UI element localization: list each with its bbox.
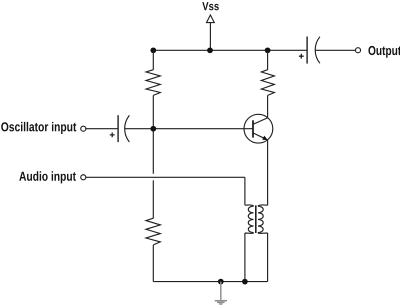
transistor Q1 body <box>244 114 273 143</box>
node ground junction <box>218 279 224 285</box>
wire secondary to bottom rail <box>267 233 269 282</box>
wire R2 to collector <box>267 95 269 118</box>
node primary-rail junction <box>242 279 248 285</box>
terminal oscillator input <box>81 126 86 131</box>
node base-divider junction <box>150 126 156 132</box>
wire C1 to transistor base <box>125 128 253 130</box>
wire primary to bottom rail <box>244 233 246 282</box>
resistor R3 <box>146 218 160 245</box>
capacitor C2 plus sign <box>299 54 304 59</box>
transformer T1 primary bottom connector <box>245 232 254 235</box>
node Vss junction <box>207 47 213 53</box>
Vss label <box>202 2 219 10</box>
resistor R2 <box>261 70 274 96</box>
transformer T1 secondary bottom connector <box>258 232 268 235</box>
ground stem <box>220 282 222 300</box>
Output label <box>368 46 400 58</box>
wire rail to R2 <box>267 50 269 70</box>
transformer T1 core <box>255 205 257 233</box>
transistor Q1 collector lead <box>253 118 268 124</box>
transformer T1 primary winding <box>248 206 253 232</box>
wire audio corner down to transformer <box>244 177 246 205</box>
transformer T1 primary top connector <box>245 205 254 206</box>
Audio input label <box>19 171 76 183</box>
capacitor C1 curved plate <box>125 115 130 142</box>
ground symbol <box>215 301 227 304</box>
Vss arrow (open triangle) <box>207 15 215 23</box>
transformer T1 secondary winding <box>258 206 263 232</box>
transistor Q1 emitter arrow <box>262 136 268 141</box>
wire left column below hop <box>152 180 154 218</box>
wire R1 to lower resistor <box>152 95 154 173</box>
Oscillator input label <box>1 122 76 134</box>
terminal output <box>355 48 360 53</box>
node top-left junction <box>150 47 156 53</box>
capacitor C1 flat plate <box>117 115 119 142</box>
terminal audio input <box>81 175 86 180</box>
transistor Q1 base bar <box>252 120 254 137</box>
wire C2 to output terminal <box>315 49 355 51</box>
wire rail to R1 <box>152 50 154 70</box>
transformer T1 secondary top connector <box>258 205 268 206</box>
wire emitter down <box>267 140 269 205</box>
wire Vss stem <box>209 23 211 51</box>
resistor R1 <box>146 70 160 96</box>
wire oscillator input to C1 <box>86 128 118 130</box>
transistor Q1 emitter lead <box>253 133 266 139</box>
capacitor C2 curved plate <box>315 37 320 64</box>
wire R3 to bottom rail <box>152 245 154 282</box>
capacitor C1 plus sign <box>110 133 115 138</box>
wire bottom rail <box>153 281 267 283</box>
wire audio input across <box>86 176 245 178</box>
capacitor C2 flat plate <box>306 37 308 64</box>
wire top rail <box>153 49 307 51</box>
node collector-rail junction <box>265 47 271 53</box>
